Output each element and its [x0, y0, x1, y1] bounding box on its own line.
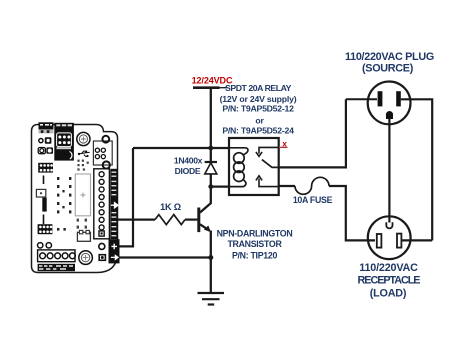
- wire emitter down to gnd junction: [210, 231, 212, 294]
- board mounting hole bottom: [79, 251, 93, 265]
- relay contact NO (bottom): [256, 176, 279, 187]
- board pad pair row1: [39, 139, 43, 143]
- svg-text:P/N: TIP120: P/N: TIP120: [232, 250, 278, 260]
- svg-text:110/220VAC PLUG: 110/220VAC PLUG: [345, 51, 434, 63]
- board RAW pin pad: [99, 243, 105, 249]
- receptacle slot right: [397, 234, 401, 248]
- transistor Q1 TIP120: [197, 203, 211, 232]
- diode D1 1N400x: [205, 162, 217, 174]
- receptacle J1 (load) body: [368, 216, 411, 259]
- fuse F1 10A: [295, 177, 329, 194]
- wire rail junction to relay coil top: [133, 147, 229, 149]
- board passives sprinkles: [57, 177, 71, 231]
- svg-text:(12V or 24V supply): (12V or 24V supply): [220, 94, 297, 104]
- board big pad ring mid: [103, 161, 110, 168]
- wire plug neutral lead to right bus: [401, 99, 432, 240]
- svg-text:or: or: [255, 115, 264, 125]
- board RF module block: [54, 123, 74, 161]
- board misc small parts left column: [43, 176, 45, 185]
- unused NC terminal stub marked x: [279, 146, 288, 148]
- svg-text:110/220VAC: 110/220VAC: [359, 262, 418, 274]
- wire receptacle neutral lead: [402, 239, 432, 241]
- wire relay NO to fuse: [279, 185, 295, 187]
- board right header strip: [94, 169, 110, 239]
- relay contact NC (top, marked x): [256, 147, 279, 156]
- board top-left header block: [39, 122, 54, 129]
- node junction coil bottom: [208, 184, 213, 189]
- svg-text:NPN-DARLINGTON: NPN-DARLINGTON: [217, 228, 293, 238]
- svg-text:1K Ω: 1K Ω: [160, 202, 181, 212]
- wire main vertical from rail to collector: [210, 88, 212, 162]
- board GND pin pad: [99, 255, 105, 261]
- relay K1 box: [229, 138, 279, 195]
- svg-text:RECEPTACLE: RECEPTACLE: [358, 275, 421, 287]
- board pad rings OO: [38, 243, 43, 248]
- node junction emitter/board gnd: [208, 255, 213, 260]
- board mounting hole top: [77, 132, 90, 145]
- relay blade / common: [262, 160, 279, 168]
- board header grid A: [38, 163, 53, 173]
- board silkscreen strip MOTOR: [38, 264, 75, 271]
- receptacle slot left: [377, 234, 382, 248]
- board small caps under IC: [77, 219, 87, 229]
- receptacle ground slot: [386, 222, 392, 228]
- plug ground pin: [386, 111, 393, 119]
- wire fuse to receptacle hot: [329, 186, 375, 240]
- relay coil: [229, 148, 248, 187]
- board buzzer/crystal box: [77, 232, 90, 241]
- wire relay common to plug hot: [279, 99, 346, 167]
- svg-text:(LOAD): (LOAD): [370, 287, 407, 299]
- svg-text:DIODE: DIODE: [175, 166, 201, 176]
- board power block bottom right: [109, 239, 120, 263]
- plug prong left: [378, 91, 383, 106]
- board IC footprint: [75, 174, 90, 216]
- board big pad ring top: [102, 136, 109, 143]
- svg-text:10A FUSE: 10A FUSE: [293, 195, 333, 205]
- svg-text:(SOURCE): (SOURCE): [362, 63, 414, 75]
- svg-text:P/N: T9AP5D52-24: P/N: T9AP5D52-24: [222, 125, 294, 135]
- wire board RAW pin up to rail: [105, 148, 134, 246]
- board pad pair row2: [38, 148, 45, 154]
- wire coil bottom to junction: [211, 186, 229, 188]
- board U1 microcontroller PCB outline: [32, 125, 118, 273]
- wire board GND pin to emitter junction: [106, 256, 211, 258]
- svg-text:x: x: [282, 139, 287, 149]
- svg-text:1N400x: 1N400x: [174, 156, 203, 166]
- wire plug ground down to receptacle: [388, 119, 390, 223]
- plug P1 (source) body: [368, 82, 411, 125]
- node junction coil top: [208, 146, 213, 151]
- node +12/24VDC supply rail: [193, 86, 228, 89]
- board screw terminal: [38, 250, 75, 262]
- board pin-label strip: [110, 169, 117, 239]
- ground: [198, 293, 225, 305]
- svg-text:P/N: T9AP5D52-12: P/N: T9AP5D52-12: [222, 104, 294, 114]
- plug prong right: [396, 91, 401, 106]
- svg-text:TRANSISTOR: TRANSISTOR: [227, 239, 282, 249]
- svg-text:SPDT 20A RELAY: SPDT 20A RELAY: [225, 83, 292, 93]
- wire plug hot lead: [346, 98, 377, 100]
- board 2x2 connector box: [93, 141, 112, 165]
- resistor R1 1K ohm: [105, 215, 198, 225]
- board misc marks below usb: [77, 160, 88, 171]
- board USB icon: [79, 151, 90, 157]
